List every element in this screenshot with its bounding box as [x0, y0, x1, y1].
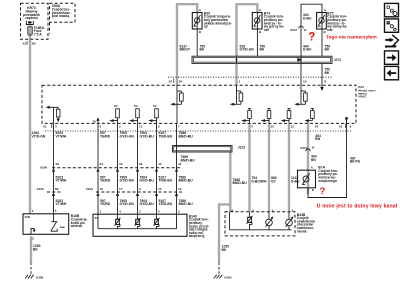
wire label 5203 VT/WH (band B)	[56, 175, 67, 182]
wire 7586 BN/D-BU module pin 7 through splice J213 to B140 pin 3	[176, 123, 178, 214]
svg-text:A: A	[259, 8, 262, 12]
svg-text:VT/D-GN: VT/D-GN	[32, 135, 46, 139]
svg-text:GY/D-BU: GY/D-BU	[140, 135, 155, 139]
toolbar icon: back curved arrow	[385, 35, 398, 48]
svg-text:?: ?	[308, 32, 315, 44]
svg-text:GY/D-BU: GY/D-BU	[140, 202, 155, 206]
sensor B39 pins A/B	[199, 8, 202, 34]
wire 1133 D-BU (highlighted)	[288, 124, 290, 212]
svg-text:VT/WH: VT/WH	[56, 135, 67, 139]
wire label 754 D-BU/WH	[252, 176, 267, 183]
sensor B75 pins A/B	[324, 8, 327, 34]
inline connector X212 (top, circuit 404)	[290, 26, 307, 32]
wire 750 BK from B75 pin B through splice J272 to module ground pin 8	[321, 29, 323, 90]
wire label 7905 GY/D-GN (band A)	[120, 131, 135, 138]
splice pack J272	[192, 56, 341, 63]
svg-text:58: 58	[56, 162, 60, 166]
module internal: pin 6 5V supply	[93, 117, 100, 123]
svg-text:44: 44	[158, 162, 162, 166]
sensor B43B label	[297, 213, 315, 234]
wire label 404 D-BU (above X212)	[303, 13, 312, 20]
svg-text:5V: 5V	[114, 104, 119, 108]
wire 7905 GY/D-GN module pin 2 to B140 pin 4	[117, 123, 119, 214]
wire label 5203 VT/WH (band C)	[56, 199, 67, 206]
svg-text:X200: X200	[40, 166, 47, 170]
wire label 7586 BN/D-BU (band A)	[179, 131, 194, 138]
wire 1390 VT/D-GN (highlighted)	[29, 35, 31, 214]
sensor B140 box (windshield temp / interior humidity sensor)	[93, 214, 187, 236]
wire label 5107 TN/D-BU (band B)	[159, 175, 173, 182]
svg-text:17: 17	[119, 187, 123, 191]
wire 1250 BK from B10B pin 2 (highlighted)	[30, 236, 32, 262]
svg-text:BN: BN	[311, 158, 316, 162]
wire stub through sensor B74	[256, 13, 258, 30]
wire label 750 BK (J272 output)	[325, 68, 331, 75]
sensor B7A pin B	[312, 188, 315, 192]
wire label 5107 TN/D-BU (band A)	[159, 131, 173, 138]
svg-text:wnętrznego: wnętrznego	[317, 179, 337, 183]
wire label 597 YE/RD (band B)	[100, 175, 111, 182]
module internal: pin 20 5V pull-up	[261, 109, 271, 124]
svg-text:BN/D-BU: BN/D-BU	[181, 158, 196, 162]
svg-text:X2: X2	[339, 124, 343, 128]
module internal: 6137 input (pin 20) with pull-up resistor, to pin 7	[170, 85, 183, 123]
wire stub through sensor B39	[196, 13, 198, 30]
svg-text:D-BU/WH: D-BU/WH	[252, 180, 267, 184]
svg-text:GY/D-BU: GY/D-BU	[140, 179, 155, 183]
svg-text:X1: X1	[23, 42, 27, 46]
svg-text:64: 64	[100, 162, 104, 166]
wire 5107 TN/D-BU module pin 5 to B140 pin 5	[156, 123, 158, 214]
wire label 7904 GY/D-BU (band B)	[140, 175, 155, 182]
module internal: 618 input (pin 1) with pull-up resistor	[230, 85, 243, 106]
svg-text:1: 1	[32, 209, 34, 213]
svg-text:GY/D-GN: GY/D-GN	[120, 135, 135, 139]
svg-text:D-BU: D-BU	[291, 180, 300, 184]
wire label 750 BK (B74)	[260, 44, 266, 51]
module internal: pin 4 5V pull-up	[241, 109, 251, 124]
svg-text:BN/GY: BN/GY	[180, 48, 191, 52]
red annotation: Tego nie namierzylem	[326, 34, 377, 40]
wire dashed lead to ground G306	[30, 263, 32, 275]
svg-text:6: 6	[100, 124, 102, 128]
svg-text:6V: 6V	[95, 216, 100, 220]
module internal: pin 5 5V pull-up	[148, 104, 158, 123]
svg-text:1: 1	[239, 80, 241, 84]
svg-text:5: 5	[158, 209, 160, 213]
sensor B43B potentiometer element (pin 3)	[247, 212, 253, 230]
wire label 404 BN (band A right)	[315, 134, 321, 141]
svg-text:5: 5	[158, 124, 160, 128]
svg-text:IGN: IGN	[25, 215, 30, 219]
toolbar icon: zoom out	[385, 19, 399, 32]
svg-text:7.5 A: 7.5 A	[34, 33, 42, 37]
svg-text:A: A	[199, 8, 202, 12]
sensor B74 box (air temperature sensor left upper duct)	[252, 13, 262, 30]
wire 404 D-BU from B75 pin A to module pin 10	[301, 4, 322, 85]
wire label 7586 BN/D-BU (below J213)	[181, 155, 196, 162]
svg-text:19: 19	[100, 187, 104, 191]
sensor B7A pin A	[311, 165, 314, 169]
wire label 487 BK/YE	[350, 156, 361, 163]
svg-text:10: 10	[158, 187, 162, 191]
wire 618 GY/D-GN (highlighted)	[237, 4, 258, 85]
svg-text:GY: GY	[271, 180, 277, 184]
module internal: pin 3 input with resistor to ground	[46, 106, 61, 124]
sensor B140 potentiometer element 3 (pin 5)	[154, 214, 160, 229]
wire 404 crossing splice J272	[300, 56, 302, 64]
svg-text:13: 13	[291, 124, 295, 128]
toolbar icon: zoom in	[385, 3, 399, 16]
wire label 7586 BN/D-BU (J213 branch)	[233, 178, 248, 185]
sensor B140 pins 1 4 2 5 3	[100, 209, 181, 213]
sensor B43B pins 6 3 2 4	[232, 208, 294, 212]
svg-text:Tego nie namierzyłem: Tego nie namierzyłem	[326, 34, 377, 40]
svg-text:BN/D-BU: BN/D-BU	[179, 179, 194, 183]
svg-text:BN: BN	[315, 137, 320, 141]
svg-text:BN/D-BU: BN/D-BU	[179, 135, 194, 139]
sensor B7A box (interior air temperature sensor)	[298, 170, 316, 188]
svg-text:5: 5	[55, 209, 57, 213]
fuse block X50A label	[52, 4, 72, 18]
svg-text:BK: BK	[260, 48, 265, 52]
ground G306	[25, 275, 43, 280]
module internal: pin X2-8 ground output arrow	[345, 117, 349, 123]
fuse block X50A box (dashed)	[50, 3, 76, 33]
svg-text:VT/WH: VT/WH	[56, 202, 67, 206]
module internal: 404 input (pin 10) with pull-up resistor	[294, 85, 307, 106]
svg-text:5V: 5V	[134, 104, 139, 108]
svg-text:7: 7	[178, 124, 180, 128]
wire 7586 crossing splice J213	[176, 145, 178, 153]
svg-text:BK: BK	[222, 248, 227, 252]
svg-text:4: 4	[251, 124, 253, 128]
wire label 7904 GY/D-BU (band C)	[140, 199, 155, 206]
wire 597 YE/RD module pin 6 to B140 pin 1	[97, 123, 99, 214]
sensor B74 label	[263, 11, 284, 32]
wire label 404 D-BU (below X212)	[303, 44, 312, 51]
wire label 7904 GY/D-BU (band A)	[140, 131, 155, 138]
svg-text:16: 16	[178, 187, 182, 191]
svg-text:B: B	[199, 30, 202, 34]
wire label 597 YE/RD (band A)	[100, 131, 111, 138]
sensor B75 label	[326, 11, 347, 32]
sensor B43B photo element 2 (pin 4)	[286, 212, 294, 230]
svg-text:8: 8	[324, 80, 326, 84]
pin X1 B5 of fuse block	[23, 41, 36, 46]
sensor B140 internal wiring	[98, 214, 177, 229]
sensor B140 potentiometer element 2 (pin 2)	[135, 214, 141, 229]
inline connector X212 (center, circuit 404)	[300, 145, 315, 151]
svg-text:X212: X212	[290, 28, 297, 32]
svg-text:YE/RD: YE/RD	[100, 179, 111, 183]
red annotation question mark (top)	[308, 32, 315, 44]
red annotation: U mnie jest to dolny lewy kanal	[317, 204, 398, 210]
svg-text:G305: G305	[224, 275, 232, 279]
module internal: pin 2 5V pull-up	[109, 104, 119, 123]
svg-text:D-BU: D-BU	[303, 48, 312, 52]
svg-text:42: 42	[178, 162, 182, 166]
wire label 618 GY/D-GN	[240, 44, 255, 51]
svg-text:J272: J272	[334, 58, 342, 62]
svg-text:A: A	[311, 165, 314, 169]
sensor B43B internal wiring	[230, 212, 292, 230]
svg-text:B5: B5	[32, 42, 36, 46]
module internal: pin 12 5V pull-up	[129, 104, 139, 123]
module K33 connector rail X2 (top, dotted)	[168, 77, 332, 83]
svg-text:zapłonu: zapłonu	[25, 16, 38, 20]
wire label 1250 BK (left)	[33, 244, 41, 251]
sensor B10B label	[70, 214, 88, 228]
wire label 1250 BK (center)	[222, 245, 230, 252]
svg-text:YE/D-BU: YE/D-BU	[159, 202, 173, 206]
wire 750 BK from B74 pin B to splice J272	[256, 29, 258, 57]
svg-text:4: 4	[119, 209, 121, 213]
svg-text:B: B	[304, 28, 307, 32]
sensor B140 label	[188, 214, 209, 238]
wire label 404 BN (below X212 center)	[311, 155, 317, 162]
wire label 7586 BN/D-BU (band C)	[179, 199, 194, 206]
sensor B10B box (air quality sensor)	[23, 214, 69, 235]
svg-text:B: B	[259, 30, 262, 34]
svg-text:BK: BK	[200, 48, 205, 52]
svg-text:20: 20	[179, 80, 183, 84]
svg-text:BN/D-BU: BN/D-BU	[233, 181, 248, 185]
svg-text:BK/YE: BK/YE	[350, 160, 361, 164]
module K33 label	[357, 85, 376, 98]
svg-text:D-BU: D-BU	[303, 17, 312, 21]
svg-text:8: 8	[350, 124, 352, 128]
svg-text:2: 2	[32, 236, 34, 240]
harness connector rail X210	[86, 187, 182, 196]
svg-text:X2: X2	[169, 80, 173, 84]
svg-text:33: 33	[119, 162, 123, 166]
svg-text:BK: BK	[33, 248, 38, 252]
svg-text:pod maską: pod maską	[52, 14, 70, 18]
svg-text:HVAC: HVAC	[358, 95, 367, 99]
toolbar icon: arrow right	[385, 51, 399, 64]
wire label 7905 GY/D-GN (band C)	[120, 199, 135, 206]
svg-text:16: 16	[315, 124, 319, 128]
svg-text:BK: BK	[325, 48, 330, 52]
svg-text:TN/D-BU: TN/D-BU	[159, 179, 173, 183]
sensor B140 internal 6V supply	[95, 216, 100, 220]
wire label 597 YE/RD (band C)	[100, 199, 111, 206]
fuse F18EA 7.5A	[28, 26, 45, 37]
svg-text:YE/RD: YE/RD	[100, 135, 111, 139]
svg-text:2: 2	[119, 124, 121, 128]
wire stub through sensor B75	[321, 13, 323, 30]
module internal: 750 ground input arrow (pin 8 top)	[320, 87, 324, 91]
ground G305	[214, 275, 232, 280]
wire 750 BK from B39 pin B to splice J272	[196, 29, 198, 57]
wire 580 GY (highlighted)	[268, 124, 270, 212]
svg-text:cji: cji	[204, 25, 208, 29]
red annotation question mark (bottom)	[320, 186, 326, 197]
wire 6137 BN/GY (highlighted)	[177, 4, 197, 85]
svg-text:nał.: nał.	[327, 28, 333, 32]
svg-text:B: B	[312, 188, 315, 192]
svg-text:GY/D-GN: GY/D-GN	[240, 48, 255, 52]
sensor B10B pin 2	[32, 236, 34, 240]
wire label 580 GY	[271, 176, 277, 183]
svg-text:B: B	[324, 30, 327, 34]
svg-text:12: 12	[139, 124, 143, 128]
svg-text:2: 2	[139, 209, 141, 213]
svg-text:wnętrznej,: wnętrznej,	[188, 234, 205, 238]
svg-text:?: ?	[320, 186, 326, 197]
relay contact symbol	[26, 21, 33, 25]
wire label 1133 D-BU	[291, 176, 300, 183]
svg-text:5V: 5V	[93, 119, 98, 123]
svg-text:BN/D-BU: BN/D-BU	[179, 202, 194, 206]
svg-text:9: 9	[139, 187, 141, 191]
svg-text:YE/RD: YE/RD	[100, 202, 111, 206]
wire label 6137 BN/GY	[180, 44, 191, 51]
svg-text:3: 3	[55, 124, 57, 128]
harness connector rail X100	[37, 187, 62, 196]
svg-text:X212: X212	[300, 146, 307, 150]
svg-text:BK: BK	[325, 71, 330, 75]
module K33 connector rail X1/X2 (bottom, dotted)	[43, 124, 352, 131]
harness connector rail X200	[40, 162, 182, 172]
svg-text:wietrza: wietrza	[70, 224, 82, 228]
svg-text:X210: X210	[86, 187, 93, 191]
sensor B10B internal temperature element	[51, 214, 65, 231]
wire 5203 VT/WH module pin 3 to B10B pin 5	[53, 123, 55, 213]
wire 754 D-BU/WH (highlighted)	[248, 124, 250, 212]
sensor B74 pins A/B	[259, 8, 262, 34]
relay KR73 label	[23, 6, 40, 20]
sensor B10B internal pin 2 link	[31, 229, 36, 235]
wire 7904 GY/D-BU module pin 12 to B140 pin 2	[137, 123, 139, 214]
svg-text:nienia: nienia	[297, 229, 307, 233]
relay box KR73 (dashed)	[21, 3, 49, 39]
wire 618 crossing splice J272	[235, 56, 237, 64]
svg-text:GY/D-GN: GY/D-GN	[120, 179, 135, 183]
svg-text:5V: 5V	[153, 104, 158, 108]
svg-text:10: 10	[303, 80, 307, 84]
wire label 5203 VT/WH (band A)	[56, 131, 67, 138]
svg-text:układu klimatyza-: układu klimatyza-	[204, 21, 232, 25]
wire dashed lead to ground G305	[218, 263, 220, 275]
wire label 5107 YE/D-BU (band C)	[159, 199, 173, 206]
wire label 7586 BN/D-BU (band B)	[179, 175, 194, 182]
svg-text:3: 3	[178, 209, 180, 213]
svg-text:X1: X1	[43, 124, 47, 128]
sensor B39 label	[204, 11, 232, 28]
wire label 750 BK (B75)	[325, 44, 331, 51]
module K33 box (dashed)	[42, 85, 356, 123]
wire 404 BN (highlighted, pin 16 to sensor B7A)	[307, 124, 309, 194]
sensor B140 potentiometer element 1 (pin 4)	[115, 214, 121, 229]
module internal: pin 13 5V pull-up	[281, 109, 291, 124]
wire 487 BK/YE module pin X2-8 to B7A pin B	[308, 121, 347, 198]
svg-text:63: 63	[139, 162, 143, 166]
sensor B39 box (A/C evaporator temperature sensor)	[192, 13, 202, 30]
sensor B43B box (solar / ambient light sensor, dashed)	[225, 212, 295, 236]
svg-text:nał: nał	[264, 28, 269, 32]
svg-text:X100: X100	[37, 187, 44, 191]
svg-text:B: B	[312, 145, 315, 149]
wire 7586 ground branch from splice J213 (highlighted)	[219, 153, 230, 263]
wire label 1390 VT/D-GN	[32, 131, 46, 138]
svg-text:GY/D-GN: GY/D-GN	[120, 202, 135, 206]
svg-text:VT/WH: VT/WH	[56, 179, 67, 183]
svg-text:20: 20	[271, 124, 275, 128]
svg-text:U mnie jest to dolny lewy kana: U mnie jest to dolny lewy kanał	[317, 204, 398, 210]
svg-text:TN/D-BU: TN/D-BU	[159, 135, 173, 139]
svg-text:J213: J213	[238, 145, 246, 149]
svg-text:G306: G306	[36, 275, 44, 279]
module internal: pin 16 5V pull-up	[305, 109, 315, 124]
wire label 7905 GY/D-GN (band B)	[120, 175, 135, 182]
sensor B10B pins 1 and 5	[32, 209, 57, 213]
svg-text:86: 86	[55, 187, 59, 191]
sensor B7A label	[317, 166, 338, 183]
toolbar icon: arrow left	[385, 66, 399, 79]
sensor B75 box (air temperature sensor left lower duct)	[317, 13, 327, 30]
splice pack J213	[173, 145, 246, 152]
svg-text:1: 1	[100, 209, 102, 213]
wire label 750 BK (B39)	[200, 44, 206, 51]
sensor B43B photo element 1 (pin 2)	[266, 212, 274, 230]
